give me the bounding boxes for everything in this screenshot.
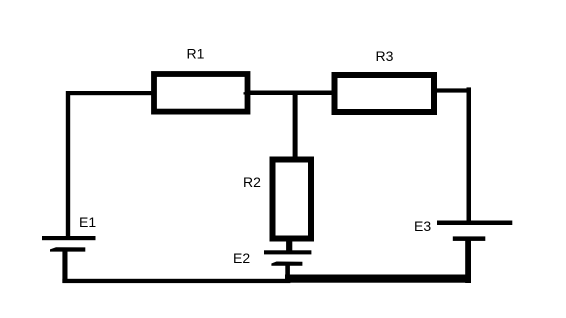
battery E3 positive plate (long) bbox=[437, 221, 512, 226]
svg-text:R1: R1 bbox=[187, 46, 205, 62]
wire: top-left horizontal segment from left branch to R1 left terminal bbox=[66, 91, 153, 95]
battery E2 negative plate (short) bbox=[271, 262, 302, 266]
battery E1 positive plate (long) bbox=[42, 236, 96, 240]
svg-text:E2: E2 bbox=[233, 250, 250, 266]
battery E3 negative plate (short) bbox=[453, 236, 486, 241]
svg-text:E1: E1 bbox=[79, 214, 96, 230]
wire: E2 negative terminal stub down to bottom wire bbox=[285, 265, 290, 279]
wire: stub from R2 bottom terminal to E2 positive plate bbox=[286, 240, 292, 251]
svg-text:R3: R3 bbox=[376, 48, 394, 64]
wire: E3 negative terminal stub down to bottom wire bbox=[465, 240, 471, 284]
wire: E1 negative terminal stub down to bottom wire bbox=[62, 250, 67, 283]
wire: small overlap tick inside R1 right terminal bbox=[244, 92, 247, 94]
svg-text:R2: R2 bbox=[243, 174, 261, 190]
resistor R1 bbox=[154, 74, 248, 112]
resistor R2 bbox=[273, 160, 312, 239]
wire: bottom horizontal segment left (E1 to E2 junction) bbox=[62, 279, 290, 283]
resistor R3 bbox=[335, 75, 435, 112]
wire: horizontal segment from R3 right terminal to right branch corner bbox=[437, 88, 471, 92]
battery E2 positive plate (long) bbox=[264, 250, 311, 254]
wire: middle vertical segment from top node junction down to R2 bbox=[293, 93, 298, 158]
wire: horizontal segment R1 right terminal to R3 left terminal (top node) bbox=[250, 91, 332, 96]
wire: right vertical branch down to E3 positive plate bbox=[467, 87, 472, 222]
wire: left vertical branch (node A down to E1 positive plate) bbox=[66, 91, 70, 236]
battery E1 negative plate (short) bbox=[50, 247, 85, 251]
svg-text:E3: E3 bbox=[414, 218, 431, 234]
wire: bottom horizontal segment right thick (E2 junction to E3) bbox=[285, 275, 471, 283]
